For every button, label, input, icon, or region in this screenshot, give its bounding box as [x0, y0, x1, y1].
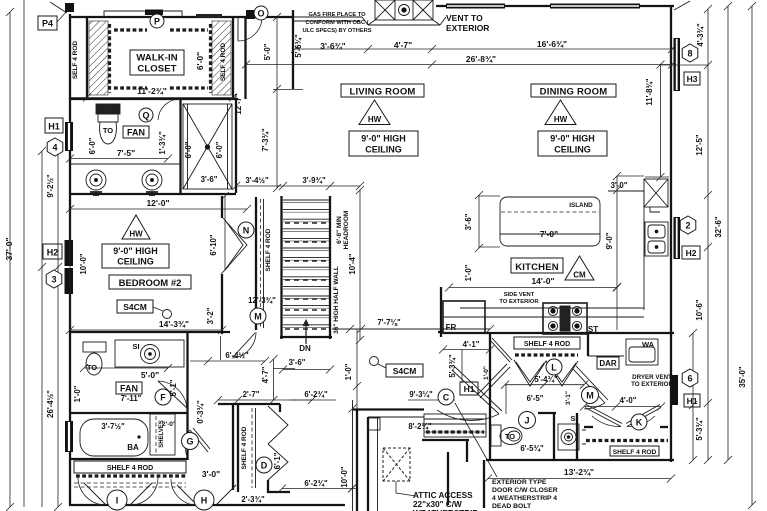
svg-text:4'-7": 4'-7": [261, 366, 270, 383]
svg-text:5'-4¾": 5'-4¾": [534, 375, 558, 384]
K door leaf left: [585, 405, 622, 427]
svg-text:26'-4½": 26'-4½": [46, 390, 55, 418]
door circle D: [256, 457, 272, 473]
svg-text:1'-0": 1'-0": [483, 366, 490, 380]
window dining north 2: [550, 4, 640, 9]
stairs down arrow: [303, 320, 309, 344]
label shelf rod bath: [74, 461, 186, 473]
outer east wall: [670, 6, 672, 462]
svg-text:7'-11": 7'-11": [121, 394, 142, 403]
svg-text:6'-0": 6'-0": [184, 141, 193, 158]
door circle I: [107, 490, 127, 510]
dim line top 16ft: [291, 45, 676, 53]
label box H3 right: [684, 72, 700, 85]
svg-text:FR: FR: [446, 323, 457, 332]
door H leaf2: [216, 485, 236, 505]
ensuite door leaf: [179, 99, 181, 121]
svg-text:3'-2": 3'-2": [206, 307, 215, 324]
svg-text:H2: H2: [47, 248, 59, 258]
svg-text:Q: Q: [142, 111, 149, 121]
svg-text:3'-1": 3'-1": [565, 391, 572, 405]
svg-text:22"x30" C/W: 22"x30" C/W: [413, 500, 462, 509]
svg-text:1'-0": 1'-0": [73, 385, 82, 402]
hall west wall segment: [232, 403, 234, 490]
closet top shelf band right: [170, 28, 208, 31]
svg-text:5'-3¾": 5'-3¾": [695, 417, 704, 441]
bedroom2 east wall lower: [221, 274, 223, 334]
ensuite fan room west shelf wall: [179, 99, 181, 193]
bath toilet: [83, 342, 106, 375]
svg-text:DEAD BOLT: DEAD BOLT: [492, 503, 532, 510]
svg-text:2'-3¾": 2'-3¾": [241, 495, 265, 504]
closet left shelf band: [108, 24, 111, 93]
dim vert 1-0 hall: [349, 329, 362, 413]
svg-text:3'-0": 3'-0": [611, 181, 628, 190]
svg-text:3'-6": 3'-6": [289, 358, 306, 367]
door circle C: [438, 389, 454, 405]
roof diagonal NE: [674, 1, 690, 10]
closet right shelf hatch: [212, 21, 231, 95]
south wall right section: [486, 459, 674, 461]
svg-text:KITCHEN: KITCHEN: [515, 262, 559, 273]
door H arc: [171, 479, 197, 505]
svg-text:3'-6": 3'-6": [201, 175, 218, 184]
window east 2: [674, 217, 681, 259]
svg-text:9'-3¼": 9'-3¼": [409, 390, 433, 399]
dim hall 2-7: [214, 396, 316, 404]
svg-text:16'-6¾": 16'-6¾": [537, 39, 567, 49]
svg-text:12'-0": 12'-0": [146, 198, 169, 208]
svg-text:2'-7": 2'-7": [243, 390, 260, 399]
label fan ensuite: [123, 126, 149, 138]
door circle G: [182, 433, 199, 450]
mud inner line: [368, 416, 424, 418]
svg-text:BEDROOM #2: BEDROOM #2: [119, 278, 182, 289]
svg-text:3'-4½": 3'-4½": [245, 176, 269, 185]
svg-text:K: K: [636, 418, 643, 428]
dim stub hall: [220, 336, 222, 360]
dim closet 11-2: [70, 94, 237, 102]
svg-text:3'-7½": 3'-7½": [101, 422, 125, 431]
text side vent: [499, 292, 539, 305]
dim hall 6-4: [190, 357, 269, 365]
svg-text:7'-5": 7'-5": [117, 148, 135, 158]
door O leaf: [237, 17, 239, 41]
ensuite vanity counter: [70, 163, 180, 165]
K closet jamb right: [660, 426, 668, 428]
dim bedroom 14-3: [66, 326, 226, 334]
closet bottom shelf band left: [114, 86, 147, 89]
label dining room: [531, 84, 616, 98]
svg-text:6'-0": 6'-0": [195, 52, 205, 70]
svg-text:FAN: FAN: [127, 128, 145, 138]
hexagon 6: [682, 369, 698, 387]
hall wall right of closet: [244, 17, 246, 99]
stairs bottom wall: [280, 336, 332, 338]
dim bedroom vert 6-10: [221, 192, 229, 274]
pedestal sink SI: [558, 424, 579, 450]
label bedroom 2: [109, 275, 191, 289]
svg-text:SELF 4 ROD: SELF 4 ROD: [220, 43, 227, 82]
bath east wall: [186, 332, 188, 460]
svg-text:H3: H3: [687, 74, 698, 84]
linen closet west wall: [237, 404, 239, 492]
svg-text:DRYER VENT: DRYER VENT: [632, 374, 672, 381]
svg-text:4'-7": 4'-7": [394, 40, 412, 50]
dim stairs top 3-9: [232, 182, 364, 190]
label living room: [341, 84, 424, 98]
svg-text:35'-0": 35'-0": [738, 366, 747, 387]
kitchen island: [500, 197, 600, 246]
J door leaf: [478, 364, 510, 398]
svg-text:11'-2¾": 11'-2¾": [137, 86, 167, 96]
svg-text:P4: P4: [42, 19, 53, 29]
window west bedroom2: [64, 240, 74, 294]
attic leader: [396, 481, 416, 496]
K closet jamb left: [584, 426, 593, 428]
svg-text:10'-0": 10'-0": [340, 466, 349, 487]
svg-text:12'-5": 12'-5": [695, 134, 704, 155]
bath shelf dashed lines: [74, 483, 186, 487]
svg-text:GAS FIRE PLACE TO: GAS FIRE PLACE TO: [308, 12, 366, 18]
svg-text:D: D: [261, 461, 268, 471]
bath door F leaf: [158, 381, 187, 408]
M door leaf: [573, 366, 608, 403]
label kitchen: [511, 258, 563, 273]
svg-text:ATTIC ACCESS: ATTIC ACCESS: [413, 491, 473, 500]
dim J 6-5: [505, 384, 507, 414]
svg-text:5'-1": 5'-1": [169, 379, 178, 396]
door G leaf: [190, 428, 210, 452]
svg-text:CEILING: CEILING: [554, 145, 591, 155]
walk-in closet west wall: [86, 18, 88, 99]
kitchen south wall: [438, 331, 443, 333]
svg-text:36" HIGH HALF WALL: 36" HIGH HALF WALL: [333, 266, 340, 334]
mud hall thin line: [352, 400, 354, 511]
bath sink: [115, 340, 184, 367]
door circle Q: [139, 108, 153, 122]
svg-text:4: 4: [52, 143, 57, 153]
hexagon 8: [682, 44, 698, 62]
svg-text:H1: H1: [48, 122, 60, 132]
J/M dividing wall: [538, 412, 556, 414]
triangle HW dining: [545, 100, 576, 125]
bedroom2 door bifold: [223, 218, 247, 272]
svg-text:SELF 4 ROD: SELF 4 ROD: [72, 41, 79, 80]
hexagon 2: [680, 216, 696, 234]
label walk-in closet: [130, 50, 184, 75]
closet left shelf hatch: [89, 21, 108, 95]
svg-text:0'-3¾": 0'-3¾": [196, 400, 205, 424]
ensuite south wall / bedroom north wall: [69, 193, 236, 195]
svg-text:TO: TO: [103, 126, 113, 135]
svg-text:H1: H1: [687, 396, 698, 406]
text exterior door note: [492, 479, 558, 510]
door circle M: [582, 387, 599, 404]
north wall jog at fireplace: [293, 17, 362, 21]
svg-text:CEILING: CEILING: [117, 257, 154, 267]
dim line left 37ft: [6, 0, 24, 511]
text gas fireplace note: [302, 12, 371, 34]
triangle CM kitchen: [565, 256, 594, 280]
outer north wall left section: [69, 16, 293, 18]
svg-text:12'-7": 12'-7": [234, 93, 243, 114]
svg-text:8'-2¼": 8'-2¼": [408, 422, 432, 431]
ensuite toilet: [96, 104, 120, 144]
svg-text:4 WEATHERSTRIP 4: 4 WEATHERSTRIP 4: [492, 495, 557, 502]
svg-text:9'-0" HIGH: 9'-0" HIGH: [361, 134, 405, 144]
stove: [543, 303, 587, 334]
svg-text:5'-0": 5'-0": [263, 43, 272, 60]
powder toilet J: [491, 425, 522, 446]
svg-text:9'-0" HIGH: 9'-0" HIGH: [113, 246, 157, 256]
svg-text:CEILING: CEILING: [365, 145, 402, 155]
svg-text:P: P: [154, 17, 160, 27]
dim vert 10-0 mud: [349, 484, 357, 492]
kitchen half wall line: [332, 328, 490, 330]
bathtub: [80, 419, 148, 456]
door circle M stair: [250, 308, 266, 324]
washer: [626, 339, 658, 365]
door circle H: [194, 490, 214, 510]
label s4cm hall: [370, 357, 424, 378]
svg-text:DN: DN: [299, 344, 311, 353]
post top wall: [246, 10, 255, 19]
fridge: [443, 301, 485, 333]
dim right 12-5: [704, 5, 712, 464]
bedroom2 door bifold leaf2: [225, 220, 243, 270]
dim right 32-6: [724, 2, 732, 464]
stairs tread double lines: [283, 203, 329, 328]
dim line top 26ft: [242, 61, 676, 69]
dim vert 4-7 hall: [270, 355, 296, 404]
dim bedroom 12-0: [66, 205, 251, 213]
kitchen south counter lines: [443, 308, 644, 317]
label shelf rod K closet: [610, 446, 659, 456]
stairs west wall: [280, 196, 282, 339]
closet right shelf band: [209, 24, 212, 93]
label living ceiling: [349, 131, 418, 156]
stair closet shelf dashes: [260, 199, 262, 328]
svg-text:6'-5": 6'-5": [527, 394, 544, 403]
stair closet west wall: [255, 197, 257, 330]
corner post NW: [65, 3, 74, 12]
label DAR: [597, 357, 619, 369]
svg-text:EXTERIOR: EXTERIOR: [446, 23, 489, 33]
svg-text:F: F: [160, 393, 166, 403]
closet L bifold inner: [516, 362, 576, 382]
svg-text:WA: WA: [642, 340, 655, 349]
window block closet top 2: [196, 14, 222, 18]
svg-text:4'-0": 4'-0": [620, 396, 637, 405]
attic access dashed box: [383, 448, 410, 481]
dim island vert 3-6: [475, 191, 500, 252]
basement stair east wall: [466, 440, 468, 462]
bedroom2 east wall upper: [221, 196, 223, 218]
linen closet shelf dash: [251, 408, 253, 488]
dim vert 5-3 entry: [461, 349, 463, 383]
svg-text:2'-0": 2'-0": [162, 421, 176, 428]
svg-text:HW: HW: [554, 115, 568, 124]
dim closet L 5-4: [501, 381, 588, 389]
dim ensuite 7-5: [66, 155, 172, 163]
dim 9-3 entry: [408, 399, 455, 401]
dim vert 5-0 top: [273, 13, 303, 192]
kitchen counter east line: [643, 191, 645, 310]
svg-text:3'-6": 3'-6": [464, 213, 473, 230]
svg-text:H: H: [201, 496, 208, 506]
closet L bifold door: [514, 360, 578, 386]
outer west wall: [69, 14, 71, 505]
door circle K: [631, 414, 647, 430]
toilet SI room small marks: [582, 430, 586, 444]
svg-text:SIDE VENT: SIDE VENT: [504, 292, 535, 298]
linen closet shelf line: [255, 408, 257, 488]
mud hall inner wall: [367, 417, 369, 511]
svg-text:6'-10": 6'-10": [209, 234, 218, 255]
svg-text:I: I: [116, 496, 119, 506]
door circle N: [238, 222, 254, 238]
stair closet shelf line: [263, 199, 265, 328]
triangle HW bedroom: [122, 215, 150, 239]
svg-text:M: M: [586, 391, 594, 401]
svg-text:9'-0" HIGH: 9'-0" HIGH: [550, 134, 594, 144]
svg-text:M: M: [254, 312, 262, 322]
svg-text:SHELF 4 ROD: SHELF 4 ROD: [524, 341, 570, 348]
svg-text:11'-8¾": 11'-8¾": [645, 78, 654, 106]
svg-text:SHELF 4 ROD: SHELF 4 ROD: [241, 426, 248, 469]
closet bottom shelf band right: [170, 86, 208, 89]
L door west jamb diagonals: [490, 338, 512, 362]
svg-text:6'-2¾": 6'-2¾": [304, 479, 328, 488]
dim line left inner: [38, 147, 62, 511]
svg-text:10'-4": 10'-4": [348, 253, 357, 274]
dim right 35-0: [748, 2, 756, 509]
svg-text:ISLAND: ISLAND: [569, 202, 593, 209]
dim line 3-6 dn: [279, 366, 334, 374]
svg-text:5'-3¾": 5'-3¾": [448, 354, 457, 378]
svg-text:26'-8¾": 26'-8¾": [466, 54, 496, 64]
dim kitchen 4-1: [439, 346, 494, 354]
svg-text:14'-0": 14'-0": [531, 276, 554, 286]
stairs tread dashes: [285, 223, 328, 329]
svg-text:G: G: [186, 437, 193, 447]
dim kitchen 3-0: [613, 172, 644, 330]
door H leaf: [177, 485, 197, 505]
stairs treads: [283, 200, 329, 325]
basement stair dark band: [426, 430, 484, 433]
fireplace box: [368, 0, 440, 25]
window west bath: [65, 421, 73, 452]
svg-text:VENT TO: VENT TO: [446, 13, 483, 23]
closet L shelf hatch band: [515, 353, 578, 356]
svg-text:SI: SI: [132, 342, 139, 351]
dim stairs vert 10-4: [356, 186, 364, 344]
walk-in closet east wall: [232, 18, 234, 99]
ensuite x-closet east wall: [235, 99, 237, 193]
svg-text:6'-0": 6'-0": [215, 141, 224, 158]
roof diagonal NW: [50, 2, 67, 13]
label box P4: [38, 10, 68, 30]
basement stair south wall: [422, 439, 469, 441]
svg-text:ST: ST: [588, 325, 598, 334]
svg-text:6'-5¾": 6'-5¾": [520, 444, 544, 453]
stairs east wall: [329, 196, 331, 339]
hall door arc from bedroom wing: [232, 332, 256, 358]
hexagon 4: [47, 138, 63, 156]
door I leaf2: [130, 483, 152, 505]
svg-text:SI: SI: [570, 414, 577, 423]
svg-text:3: 3: [51, 275, 56, 285]
bath shelf rod band dark: [76, 474, 186, 477]
svg-text:HW: HW: [368, 115, 382, 124]
bath door F arc: [158, 381, 187, 411]
text vent to exterior: [446, 13, 489, 33]
svg-text:SHELF 4 ROD: SHELF 4 ROD: [265, 228, 272, 271]
svg-text:FAN: FAN: [120, 384, 138, 394]
dim bottom 6-2: [278, 485, 357, 493]
SI room east wall: [576, 413, 578, 460]
closet top shelf band left: [114, 28, 147, 31]
dim right 5-3 bottom: [689, 329, 697, 464]
bath shelves closet: [150, 414, 175, 455]
label fan bath: [116, 382, 142, 394]
svg-text:6'-2¾": 6'-2¾": [304, 390, 328, 399]
entry door C leaf: [452, 367, 502, 414]
closet wing north wall bottom: [69, 98, 238, 100]
svg-text:J: J: [524, 416, 529, 426]
svg-text:1'-3¾": 1'-3¾": [158, 131, 167, 155]
svg-text:TO: TO: [87, 363, 97, 372]
svg-text:TO EXTERIOR: TO EXTERIOR: [499, 299, 539, 305]
triangle HW living: [359, 100, 390, 125]
SI room west wall: [553, 413, 555, 460]
svg-text:ULC SPECS) BY OTHERS: ULC SPECS) BY OTHERS: [302, 28, 371, 34]
tub dot: [137, 435, 140, 438]
window west ensuite: [65, 122, 73, 151]
svg-text:CONFORM WITH OBC (: CONFORM WITH OBC (: [305, 20, 368, 26]
svg-text:14'-3¾": 14'-3¾": [159, 319, 189, 329]
svg-text:TO: TO: [505, 432, 515, 441]
svg-text:SHELF 4 ROD: SHELF 4 ROD: [107, 465, 153, 472]
svg-text:3'-6¾": 3'-6¾": [320, 41, 345, 51]
bath tub north wall: [69, 412, 187, 414]
svg-text:8: 8: [687, 49, 692, 59]
dim line dining 11-8: [645, 61, 708, 182]
bottom right section north wall: [443, 332, 674, 334]
ensuite door arc: [158, 99, 180, 120]
K door leaf right: [626, 405, 661, 427]
svg-text:1'-0": 1'-0": [464, 264, 473, 281]
svg-text:CLOSET: CLOSET: [137, 64, 176, 75]
svg-text:DINING ROOM: DINING ROOM: [540, 87, 608, 98]
bedroom2 south wall: [69, 331, 230, 333]
svg-text:5'-0": 5'-0": [141, 370, 159, 380]
svg-text:32'-6": 32'-6": [714, 216, 723, 237]
svg-text:6'-8" MIN: 6'-8" MIN: [336, 216, 343, 244]
kitchen double sink: [645, 222, 668, 256]
mudroom divider wall: [447, 452, 449, 505]
svg-text:6: 6: [687, 374, 692, 384]
mud hall north wall: [353, 408, 424, 410]
text dryer vent: [631, 374, 673, 388]
dim bottom 13-2: [484, 475, 675, 483]
svg-text:6'-4½": 6'-4½": [225, 351, 249, 360]
svg-text:10'-0": 10'-0": [79, 253, 88, 274]
closet top shelf line: [104, 11, 182, 17]
M door arc: [584, 403, 605, 409]
window dining north 1: [446, 4, 505, 9]
